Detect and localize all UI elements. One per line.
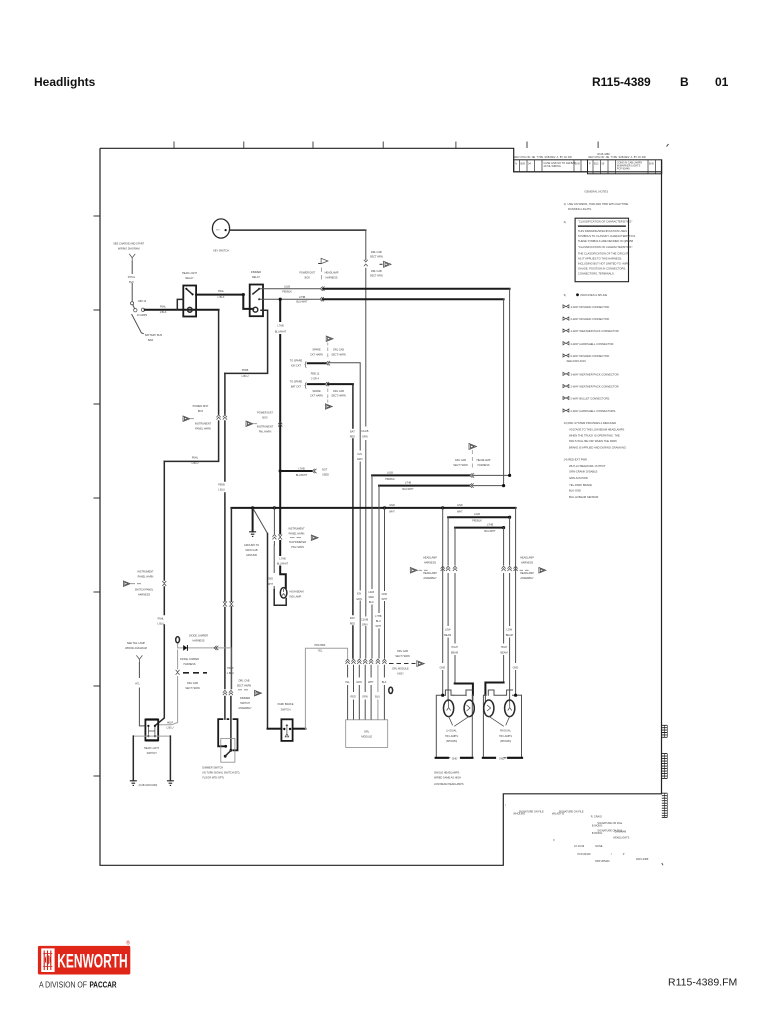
GND bus wire <box>231 507 515 509</box>
pennant flag power dist box top <box>318 263 321 265</box>
wire L6LB thick run right <box>324 288 510 290</box>
svg-text:BLU: BLU <box>376 620 381 623</box>
svg-text:C1A/B: C1A/B <box>361 619 369 622</box>
svg-text:GND: GND <box>389 504 395 507</box>
svg-text:DIODE JUMPER: DIODE JUMPER <box>180 658 199 661</box>
wire L7HB junction down to IP <box>279 299 281 471</box>
svg-text:BRAKE IS APPLIED AND DURING CR: BRAKE IS APPLIED AND DURING CRANKING. <box>569 446 627 450</box>
svg-text:SECT HRN: SECT HRN <box>370 256 383 259</box>
svg-text:YEL: YEL <box>345 681 350 684</box>
pennant flag headlamp assembly LH <box>410 568 417 574</box>
svg-text:DRL: DRL <box>364 730 370 733</box>
svg-text:BLU: BLU <box>375 695 380 698</box>
connector on diode jumper wire <box>214 646 218 650</box>
svg-text:HD LAMPS: HD LAMPS <box>445 735 458 738</box>
pennant flag spare bat row <box>327 400 329 403</box>
svg-text:VOLTAGE TO THE LOW BEAM HEADLA: VOLTAGE TO THE LOW BEAM HEADLAMPS <box>569 427 625 431</box>
park brake switch contacts <box>283 728 285 730</box>
svg-text:HARNESS: HARNESS <box>477 464 489 467</box>
label P6AL 1 BLK <box>158 304 168 309</box>
svg-text:SEE TAIL LAMP: SEE TAIL LAMP <box>127 642 145 645</box>
note 7 connector symbol <box>563 342 569 345</box>
svg-text:3): 3) <box>564 293 566 297</box>
circuit breaker CB 13 <box>131 302 134 305</box>
binder hatch block 1 <box>662 725 668 737</box>
corner mark top right <box>667 144 669 147</box>
svg-text:CONNECTORS, TERMINALS: CONNECTORS, TERMINALS <box>578 271 614 275</box>
wire TO SPARE BAT CKT stub <box>308 383 325 385</box>
off-page fork symbol battery feed <box>130 255 134 262</box>
LH high beam lamp <box>464 700 474 717</box>
LH lamp box bottom thick segments <box>435 757 474 759</box>
svg-text:L BLU: L BLU <box>242 375 249 378</box>
svg-text:SPARE: SPARE <box>312 390 321 393</box>
svg-text:BOX: BOX <box>305 276 311 279</box>
svg-text:L6LB: L6LB <box>387 471 393 474</box>
Kenworth bug emblem <box>43 951 52 971</box>
svg-text:13) DRL SYSTEM PROVIDES A REDU: 13) DRL SYSTEM PROVIDES A REDUCED <box>564 421 617 425</box>
svg-text:WHT: WHT <box>457 510 463 513</box>
svg-text:BEAM: BEAM <box>500 651 507 654</box>
svg-text:PNL HARN: PNL HARN <box>291 546 304 549</box>
svg-text:YEL: YEL <box>318 650 323 653</box>
svg-text:BLK-GND: BLK-GND <box>569 489 581 493</box>
wire high beam LH down <box>454 528 456 683</box>
svg-text:P6AL: P6AL <box>160 305 167 308</box>
wire BAT RED to vertical <box>328 383 353 385</box>
svg-text:PRK BRK: PRK BRK <box>315 644 326 647</box>
svg-text:H6LP: H6LP <box>227 667 234 670</box>
svg-text:B: B <box>680 75 689 89</box>
svg-text:WHT: WHT <box>381 598 387 601</box>
svg-text:THE CLASSIFICATION OF THE CIRC: THE CLASSIFICATION OF THE CIRCUIT <box>578 251 629 255</box>
svg-text:GENERAL NOTES: GENERAL NOTES <box>584 190 608 194</box>
svg-text:B.W: B.W <box>649 163 654 166</box>
note 4 connector symbol <box>563 305 569 308</box>
svg-text:LOW BEAM HEADLAMPS: LOW BEAM HEADLAMPS <box>434 783 464 786</box>
note 9 connector symbol <box>563 372 569 375</box>
wire high beam LH bar <box>455 684 473 696</box>
svg-text:P6DBLK: P6DBLK <box>472 520 482 523</box>
svg-text:INSTRUMENT: INSTRUMENT <box>288 528 305 531</box>
park brake switch S3 <box>281 719 292 741</box>
wire L7HB vertical down right side <box>503 299 505 485</box>
svg-text:HEADLAMP: HEADLAMP <box>325 272 339 275</box>
svg-text:DRL CAB: DRL CAB <box>239 679 250 682</box>
wire diode jumper down left side <box>159 650 178 725</box>
svg-text:BLU/WHT: BLU/WHT <box>275 331 287 334</box>
wire L7HB thick run right <box>323 298 504 300</box>
svg-text:R115-4389: R115-4389 <box>592 75 651 89</box>
svg-text:DRL CAB: DRL CAB <box>333 349 344 352</box>
high beam ind lamp <box>280 588 287 598</box>
svg-text:BLU-HI BEAM SENSOR: BLU-HI BEAM SENSOR <box>569 495 598 499</box>
wire park brake feed down <box>267 534 269 729</box>
svg-text:DIAGRAM: DIAGRAM <box>615 831 627 834</box>
svg-text:REV CHG NO NE TYPE SUB REV: REV CHG NO NE TYPE SUB REV A BY CC RD <box>589 156 646 159</box>
svg-text:(SHOWN): (SHOWN) <box>500 740 511 743</box>
svg-text:BEAM: BEAM <box>451 651 458 654</box>
connector on L7HB row <box>470 483 474 487</box>
svg-text:BOX: BOX <box>262 417 268 420</box>
pennant flag dimmer switch <box>255 690 262 696</box>
wire P37AL BLK battery to CB <box>131 262 133 302</box>
svg-text:1 BLK: 1 BLK <box>160 311 167 314</box>
wire stubs into dimmer switch <box>225 697 231 751</box>
svg-text:P37AL: P37AL <box>128 276 136 279</box>
svg-text:GND: GND <box>382 593 388 596</box>
svg-text:DIODE JUMPER: DIODE JUMPER <box>189 635 208 638</box>
svg-text:NOT: NOT <box>322 468 328 471</box>
svg-text:3-WAY WEATHER PACK CONNECTOR.: 3-WAY WEATHER PACK CONNECTOR. <box>571 373 620 377</box>
wire L7HB down to high beam ind lamp <box>280 471 286 588</box>
note 2 classification box <box>575 218 628 282</box>
svg-text:HIGH: HIGH <box>451 646 457 649</box>
svg-text:P6DBLK: P6DBLK <box>282 290 292 293</box>
svg-text:P6AL: P6AL <box>218 290 225 293</box>
head light switch pins <box>147 725 149 727</box>
RH high beam lamp <box>484 700 494 717</box>
wire dimmer relay coil feed <box>243 295 253 309</box>
svg-text:GRN-IGN PWR: GRN-IGN PWR <box>569 476 588 480</box>
label L7HB BLU/WHT mid <box>275 322 286 334</box>
connector on spare ign <box>326 361 330 365</box>
junction gnd chevron branch <box>273 506 276 509</box>
svg-text:L6LB: L6LB <box>368 591 374 594</box>
connector on spare bat <box>325 382 329 386</box>
dimmer switch blade <box>225 750 231 756</box>
junction gnd LH lamp box <box>441 694 444 697</box>
svg-text:GND: GND <box>452 757 458 760</box>
RH low beam lamp <box>505 700 515 717</box>
svg-text:GND: GND <box>457 504 463 507</box>
svg-text:2): 2) <box>564 220 566 224</box>
svg-text:SECT HARN: SECT HARN <box>453 464 468 467</box>
pennant flag power dist box center <box>246 421 253 426</box>
svg-text:NONE: NONE <box>595 845 603 848</box>
svg-text:GAUGE, POSITION IN CONNECTORS,: GAUGE, POSITION IN CONNECTORS, <box>578 266 626 270</box>
svg-text:IND LAMP: IND LAMP <box>290 596 302 599</box>
svg-text:Headlights: Headlights <box>34 75 96 89</box>
junction gnd RH lamp box <box>514 694 517 697</box>
head light relay contact blade <box>186 289 192 295</box>
svg-text:R115-4389.FM: R115-4389.FM <box>668 977 737 989</box>
battery bus bar callout leader <box>132 315 144 334</box>
svg-text:HARNESS: HARNESS <box>325 276 337 279</box>
svg-text:SWITCH: SWITCH <box>147 752 157 755</box>
svg-text:HARNESS: HARNESS <box>183 663 195 666</box>
chevrons headlamp connector LH <box>441 566 445 571</box>
svg-text:SIGNATURE ON FILE: SIGNATURE ON FILE <box>519 811 544 814</box>
svg-text:10 AMPS: 10 AMPS <box>137 314 148 317</box>
svg-text:GND: GND <box>267 578 273 581</box>
dashed line to pennant DRL module <box>389 663 416 665</box>
svg-text:L BLU: L BLU <box>157 622 164 625</box>
svg-text:L7HB: L7HB <box>277 325 284 328</box>
wire diode jumper horizontal <box>178 644 231 648</box>
svg-text:B.W: B.W <box>575 163 580 166</box>
wire P6DB down to dimmer switch <box>224 373 226 688</box>
svg-text:RELAY: RELAY <box>252 276 260 279</box>
svg-text:SEE CHARGE AND START: SEE CHARGE AND START <box>113 243 144 246</box>
svg-text:LOW: LOW <box>506 629 512 632</box>
svg-text:SECT HARN: SECT HARN <box>185 687 200 690</box>
svg-text:HEADLAMP: HEADLAMP <box>423 572 437 575</box>
svg-text:LOW: LOW <box>445 629 451 632</box>
svg-text:BLU/WHT: BLU/WHT <box>402 488 414 491</box>
junction L7HB verticals <box>502 484 505 487</box>
svg-text:SINGLE HEADLAMPS: SINGLE HEADLAMPS <box>434 772 460 775</box>
junction gnd to main cab ground <box>251 506 254 509</box>
svg-text:®: ® <box>126 940 130 947</box>
svg-text:P6DBLK: P6DBLK <box>385 478 395 481</box>
DRL module box <box>346 720 388 748</box>
junction L6LB verticals <box>508 474 511 477</box>
svg-text:H6LP: H6LP <box>167 721 174 724</box>
svg-text:SIGNATURE ON FILE: SIGNATURE ON FILE <box>559 811 584 814</box>
wire P6HL down to head light switch <box>155 461 164 725</box>
svg-text:GRN-CRANK DISABLE: GRN-CRANK DISABLE <box>569 470 598 474</box>
svg-text:SPARE: SPARE <box>312 349 321 352</box>
svg-text:CKT HARN: CKT HARN <box>310 353 323 356</box>
svg-text:SECT HARN: SECT HARN <box>331 395 346 398</box>
up-arrows dimmer switch connector <box>223 690 227 695</box>
junction dimmer feed <box>242 293 245 296</box>
diode jumper circle <box>176 637 180 643</box>
svg-text:C1A/B: C1A/B <box>361 430 369 433</box>
svg-text:BATTERY BUS: BATTERY BUS <box>145 334 162 337</box>
svg-text:DRL CAB: DRL CAB <box>371 251 382 254</box>
harness crossing on bus corner wire <box>229 602 233 607</box>
svg-text:BOX: BOX <box>198 410 204 413</box>
svg-text:INCLUDING BUT NOT LIMITED TO:: INCLUDING BUT NOT LIMITED TO: WIRE <box>578 261 630 265</box>
wire P6AL head light relay to dimmer relay <box>196 294 243 296</box>
wire C1A/B GRN key switch down <box>365 230 367 658</box>
svg-text:SWITCH PANEL: SWITCH PANEL <box>135 589 154 592</box>
svg-text:YEL-PARK BRAKE: YEL-PARK BRAKE <box>569 483 592 487</box>
wire gnd down to DRL module <box>384 508 386 658</box>
svg-text:INDICATES A SPLICE: INDICATES A SPLICE <box>581 293 608 297</box>
svg-text:GRN: GRN <box>357 458 363 461</box>
head light relay left pin jog <box>177 299 183 309</box>
park brake switch actuator <box>285 725 289 737</box>
wire L6LB lamp feed bar <box>448 516 510 518</box>
svg-text:ASSEMBLY: ASSEMBLY <box>520 577 534 580</box>
svg-text:N: N <box>515 163 517 166</box>
svg-text:HEADLAMP: HEADLAMP <box>477 459 491 462</box>
svg-text:RH DUAL: RH DUAL <box>500 730 512 733</box>
pennant flag tachometer <box>311 535 318 540</box>
svg-text:L BLU: L BLU <box>227 672 234 675</box>
svg-text:L BLK: L BLK <box>218 296 225 299</box>
border tick marks top <box>174 142 598 149</box>
dimmer switch contacts <box>224 745 227 748</box>
svg-text:USED: USED <box>322 473 329 476</box>
wire key switch to C1A/B vertical <box>230 229 366 231</box>
svg-text:HIGH: HIGH <box>501 646 507 649</box>
svg-text:WHT: WHT <box>375 625 381 628</box>
wire L7HB vertical down to DRL <box>378 486 380 658</box>
svg-text:THESE SYMBOLS ARE DEFINED IN Q: THESE SYMBOLS ARE DEFINED IN Q80058 <box>578 239 634 243</box>
svg-text:TACHOMETER: TACHOMETER <box>289 541 307 544</box>
svg-text:HD LAMPS: HD LAMPS <box>499 735 512 738</box>
svg-text:BAT CKT: BAT CKT <box>291 385 302 388</box>
svg-text:GROUND TO: GROUND TO <box>244 544 259 547</box>
svg-text:DIMMER: DIMMER <box>240 697 250 700</box>
svg-text:R115-4389: R115-4389 <box>636 858 649 861</box>
dimmer relay contact blade <box>253 289 259 294</box>
svg-text:4-WAY MOLDED CONNECTOR.: 4-WAY MOLDED CONNECTOR. <box>571 305 610 309</box>
ground symbol main cab ground <box>249 532 256 537</box>
svg-text:DRL CAB: DRL CAB <box>397 650 408 653</box>
wire IGN GRN to vertical <box>329 363 360 658</box>
svg-text:PANEL HARN: PANEL HARN <box>289 533 305 536</box>
svg-text:10-19-99: 10-19-99 <box>574 845 585 848</box>
svg-text:H7L: H7L <box>135 683 140 686</box>
svg-text:HEADLAMP: HEADLAMP <box>423 556 437 559</box>
svg-text:DRL CAB: DRL CAB <box>371 270 382 273</box>
wire L7HB row thin to junction <box>473 485 504 487</box>
svg-text:GRN: GRN <box>356 598 362 601</box>
svg-text:WIRING DIAGRAM: WIRING DIAGRAM <box>125 647 147 650</box>
dashed harness boundary line <box>183 672 207 674</box>
svg-text:GRN: GRN <box>362 624 368 627</box>
svg-text:4C74L WIRING: 4C74L WIRING <box>544 165 561 168</box>
label P6DB L BLU on jog <box>240 367 250 372</box>
wire L6LB row thin to junction <box>473 474 509 476</box>
svg-text:DRL'S WILL BE OFF WHEN THE PAR: DRL'S WILL BE OFF WHEN THE PARK <box>569 439 617 443</box>
svg-text:MODULE: MODULE <box>361 736 372 739</box>
Kenworth bug emblem white panel <box>41 948 54 972</box>
svg-text:POWER DIST: POWER DIST <box>193 405 209 408</box>
pennant flag DRL module <box>417 661 425 667</box>
dimmer switch body <box>218 719 237 750</box>
svg-text:L BLU: L BLU <box>218 489 225 492</box>
svg-text:L7HB: L7HB <box>375 615 382 618</box>
svg-text:DRL CAB: DRL CAB <box>333 390 344 393</box>
pennant flag at key switch harness crossing <box>380 263 383 265</box>
svg-text:PANEL HARN: PANEL HARN <box>195 428 211 431</box>
svg-text:PNL HARN: PNL HARN <box>259 431 272 434</box>
svg-text:"CLASSIFICATION OF CHARACTERIS: "CLASSIFICATION OF CHARACTERISTICS" <box>578 220 632 224</box>
binder hatch block 3 <box>662 793 668 817</box>
svg-text:L7HB: L7HB <box>299 296 306 299</box>
wire gnd chevron branch down <box>273 508 275 545</box>
svg-text:(CAB GROUND): (CAB GROUND) <box>139 784 158 787</box>
svg-text:A DIVISION OF: A DIVISION OF <box>39 980 87 989</box>
dimmer relay coil circle <box>253 307 258 312</box>
junction L7HB not used branch <box>279 469 282 472</box>
dimmer relay K2 <box>250 285 263 317</box>
svg-text:IGN: IGN <box>357 453 362 456</box>
diode symbol <box>183 645 187 651</box>
svg-text:PANEL HARN: PANEL HARN <box>138 575 154 578</box>
svg-text:B09: B09 <box>521 163 526 166</box>
svg-text:BLK: BLK <box>382 681 387 684</box>
svg-text:DIMMER: DIMMER <box>251 271 261 274</box>
svg-text:1) USE ON W900S, T600 AND T80: 1) USE ON W900S, T600 AND T800 WITH DAYT… <box>564 202 629 206</box>
up-arrow on L7HB at power dist box <box>278 422 282 427</box>
svg-text:6-WAY MOLDED CONNECTOR.: 6-WAY MOLDED CONNECTOR. <box>571 354 610 358</box>
svg-text:HEADLIGHTS: HEADLIGHTS <box>613 836 629 839</box>
svg-text:WHEN THE TRUCK IS OPERATING. T: WHEN THE TRUCK IS OPERATING. THE <box>569 434 620 438</box>
svg-text:FLOOR MTD-OPT): FLOOR MTD-OPT) <box>202 777 224 780</box>
svg-text:REV CHG NO NE TYPE SUB REV: REV CHG NO NE TYPE SUB REV A BY CC RD <box>515 156 572 159</box>
svg-text:THIS DRAWING/SPECIFICATION USE: THIS DRAWING/SPECIFICATION USES <box>578 229 627 233</box>
pennant flag spare ign row <box>326 336 333 341</box>
svg-text:RED: RED <box>369 596 374 599</box>
ground symbol cab ground right <box>167 781 174 786</box>
wire low beam RH down <box>509 517 511 701</box>
wires chevron row to DRL module <box>347 665 349 719</box>
LH low beam lamp <box>444 700 454 717</box>
svg-text:SEE R115-4010: SEE R115-4010 <box>567 359 587 363</box>
svg-text:HEAD LIGHT: HEAD LIGHT <box>144 747 159 750</box>
svg-text:IGN CKT: IGN CKT <box>291 364 302 367</box>
connector on not used stub <box>312 469 316 473</box>
svg-text:KENWORTH: KENWORTH <box>57 951 128 972</box>
label P6HL L BLU on jog <box>190 455 200 460</box>
svg-text:(IN TURN SIGNAL SWITCH-STD,: (IN TURN SIGNAL SWITCH-STD, <box>202 772 240 775</box>
svg-text:L7HB: L7HB <box>487 523 494 526</box>
RH lamp enclosure <box>483 695 506 758</box>
svg-text:ASSEMBLY: ASSEMBLY <box>238 707 252 710</box>
svg-text:DIMMER SWITCH: DIMMER SWITCH <box>202 767 223 770</box>
svg-text:RED: RED <box>351 695 356 698</box>
wire gnd RH from bus <box>515 508 517 695</box>
wire H7L down to head light switch <box>139 663 145 726</box>
high beam ind lamp enclosure <box>274 590 286 606</box>
svg-text:WHT: WHT <box>389 510 395 513</box>
svg-text:POWER DIST: POWER DIST <box>257 412 273 415</box>
svg-text:BEAM: BEAM <box>506 634 513 637</box>
wire TO SPARE IGN CKT stub <box>308 362 326 364</box>
park brake switch outline region <box>268 728 282 730</box>
note 12 connector symbol <box>563 409 569 412</box>
connector on L7HB at PDB <box>320 297 324 301</box>
up-arrow into power dist box on P6DB <box>223 415 227 420</box>
svg-text:2-WAY HARDSHELL CONNECTOR.: 2-WAY HARDSHELL CONNECTOR. <box>571 342 615 346</box>
svg-text:R. CRAIG: R. CRAIG <box>591 816 602 819</box>
ground symbol cab ground left <box>130 781 137 786</box>
junction gnd lamp lh <box>441 506 444 509</box>
svg-text:GROUND: GROUND <box>246 554 257 557</box>
svg-text:GRN: GRN <box>356 681 362 684</box>
svg-text:RELAY: RELAY <box>185 277 193 280</box>
svg-text:BLK: BLK <box>369 601 374 604</box>
revision table left block <box>514 156 588 172</box>
corner mark bottom right <box>662 863 663 865</box>
svg-text:L BLU: L BLU <box>192 462 199 465</box>
dimmer switch inner housing <box>221 738 235 762</box>
svg-text:14) RED-EXT PWR: 14) RED-EXT PWR <box>564 458 587 462</box>
svg-text:L7HB: L7HB <box>279 558 286 561</box>
wire high beam RH down <box>503 528 505 683</box>
sheet border <box>100 148 662 865</box>
off-page fork symbol tail lamp <box>137 657 141 663</box>
head light relay K1 <box>183 286 196 317</box>
chevrons headlamp connector RH <box>502 566 506 571</box>
svg-text:L BLU: L BLU <box>167 726 174 729</box>
key switch S1 <box>212 219 229 238</box>
svg-text:DRL MODULE: DRL MODULE <box>392 667 409 670</box>
svg-text:HEAD LIGHT: HEAD LIGHT <box>182 272 197 275</box>
svg-text:P6DB: P6DB <box>242 369 249 372</box>
pennant flag park brake <box>253 690 255 692</box>
DRL connector chevron row <box>346 659 387 664</box>
wire PRK BRK YEL up and over <box>305 648 347 729</box>
note 5 connector symbol <box>563 317 569 320</box>
